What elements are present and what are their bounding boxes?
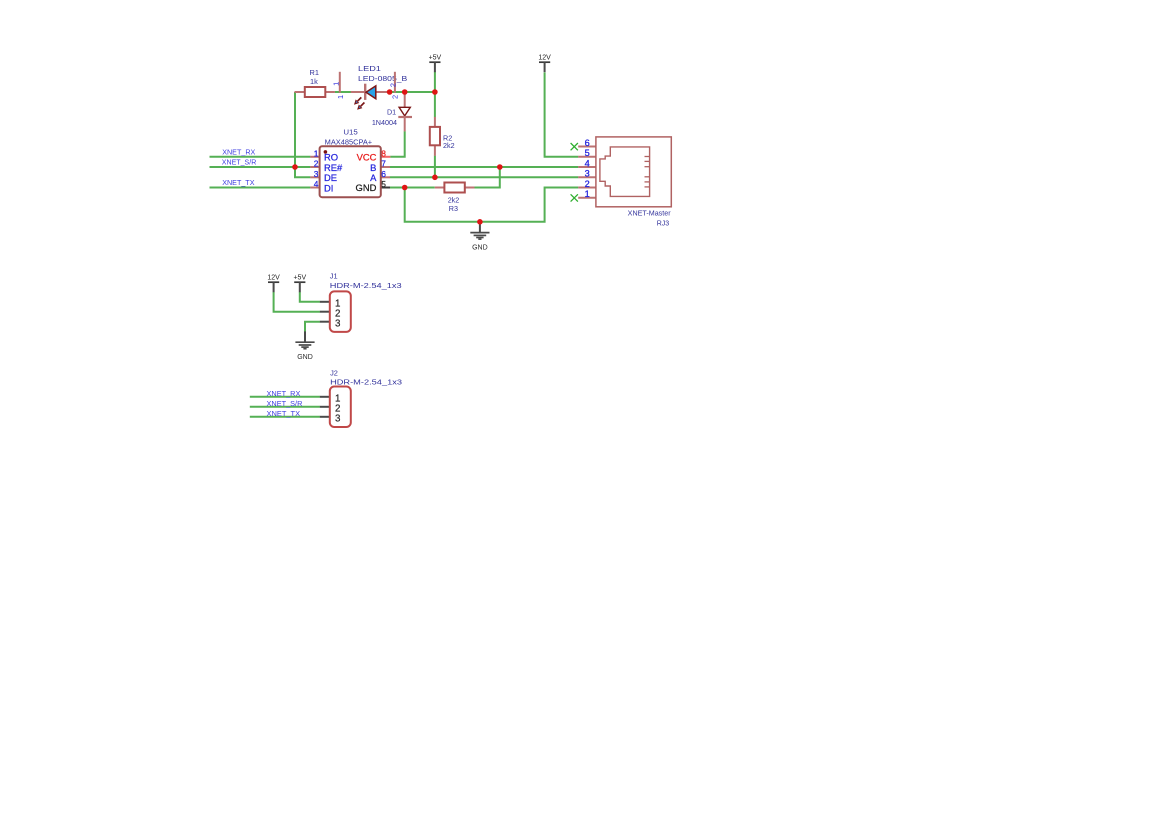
op-amp U15 MAX485CPA+ — [310, 127, 390, 197]
svg-text:2k2: 2k2 — [443, 141, 455, 150]
wire R1 left to RE#/DE — [295, 92, 310, 177]
svg-text:HDR-M-2.54_1x3: HDR-M-2.54_1x3 — [330, 281, 402, 290]
wire R3 right to B line — [474, 167, 499, 188]
svg-text:J1: J1 — [330, 272, 338, 281]
wire R1 to LED1 — [335, 91, 351, 93]
wire XNET_TX to U15 pin4 — [210, 187, 311, 189]
resistor R1 1k — [295, 68, 335, 97]
svg-text:12V: 12V — [538, 54, 551, 61]
svg-text:D1: D1 — [387, 108, 396, 117]
svg-text:U15: U15 — [343, 127, 357, 136]
power +5V top — [429, 54, 442, 72]
RJ45 connector RJ3 XNET-Master — [578, 137, 671, 228]
svg-text:1: 1 — [314, 148, 319, 158]
wire LED1 to +5V node — [390, 91, 435, 93]
wire D1 bottom to VCC pin8 — [390, 131, 405, 157]
wire XNET_RX to U15 pin1 — [210, 156, 311, 158]
ground GND top rail — [470, 222, 489, 252]
svg-text:DI: DI — [324, 182, 333, 193]
svg-text:LED-0805_B: LED-0805_B — [358, 74, 407, 83]
wire XNET_S/R to J2 pin2 — [250, 406, 320, 408]
junction GND rail / symbol — [477, 219, 483, 225]
svg-text:RJ3: RJ3 — [657, 221, 670, 228]
junction +5V node — [432, 89, 438, 95]
svg-text:J2: J2 — [330, 369, 338, 378]
wire B line U15 pin7 to RJ3 pin4 — [390, 166, 579, 168]
junction LED cathode node — [387, 89, 393, 95]
svg-text:3: 3 — [335, 318, 341, 329]
wire 12V to RJ3 pin5 — [545, 72, 579, 156]
svg-text:1: 1 — [336, 95, 345, 99]
wire +5V to R2 top — [434, 72, 436, 118]
svg-text:2: 2 — [388, 83, 397, 87]
svg-text:5: 5 — [381, 179, 386, 189]
svg-text:6: 6 — [585, 138, 590, 148]
svg-text:2: 2 — [314, 159, 319, 169]
svg-text:XNET_RX: XNET_RX — [267, 389, 301, 398]
svg-text:7: 7 — [381, 159, 386, 169]
wire XNET_TX to J2 pin3 — [250, 416, 320, 418]
connector J1 HDR-M-2.54_1x3 — [320, 272, 402, 332]
ground GND J1 — [295, 331, 314, 361]
wire GND line U15 pin5 to R3 — [390, 187, 435, 189]
svg-text:GND: GND — [297, 354, 313, 361]
wire R2 bottom to A line — [434, 156, 436, 178]
power 12V top — [538, 54, 551, 72]
svg-text:GND: GND — [472, 244, 488, 251]
wire 12V to J1 pin2 — [274, 292, 320, 312]
junction D1 anode node — [402, 89, 408, 95]
svg-text:+5V: +5V — [293, 274, 306, 281]
wire A line U15 pin6 to RJ3 pin3 — [390, 176, 579, 178]
svg-text:8: 8 — [381, 148, 386, 158]
junction XNET_S/R / R1 — [292, 164, 298, 170]
svg-text:1N4004: 1N4004 — [372, 118, 397, 127]
wire J1 pin3 to GND — [305, 322, 320, 332]
junction GND line / rail drop — [402, 185, 408, 191]
diode D1 1N4004 — [372, 93, 412, 132]
svg-text:+5V: +5V — [429, 54, 442, 61]
svg-text:XNET_S/R: XNET_S/R — [222, 158, 256, 167]
LED LED1 LED-0805_B — [332, 64, 408, 110]
wire GND rail to RJ3 pin2 — [405, 188, 579, 222]
resistor R2 2k2 — [430, 117, 455, 156]
svg-text:2: 2 — [390, 95, 399, 99]
svg-text:R3: R3 — [449, 204, 458, 213]
no-connect X RJ3 pin6 — [571, 143, 578, 150]
svg-text:XNET_TX: XNET_TX — [267, 409, 301, 418]
svg-text:1k: 1k — [310, 77, 318, 86]
svg-text:3: 3 — [335, 413, 341, 424]
svg-text:XNET_TX: XNET_TX — [222, 178, 254, 187]
wire +5V to J1 pin1 — [300, 292, 320, 302]
svg-text:3: 3 — [585, 169, 590, 179]
connector J2 HDR-M-2.54_1x3 — [320, 369, 402, 427]
wire XNET_S/R to U15 pin2 — [210, 166, 311, 168]
wire XNET_RX to J2 pin1 — [250, 396, 320, 398]
svg-text:6: 6 — [381, 169, 386, 179]
svg-text:2: 2 — [585, 179, 590, 189]
svg-text:3: 3 — [314, 169, 319, 179]
svg-text:XNET_S/R: XNET_S/R — [267, 399, 303, 408]
svg-text:LED1: LED1 — [358, 64, 381, 73]
svg-text:R1: R1 — [310, 68, 319, 77]
svg-text:1: 1 — [332, 82, 341, 86]
svg-text:12V: 12V — [267, 274, 280, 281]
junction A / R2 — [432, 175, 438, 181]
power +5V J1 — [293, 274, 306, 292]
svg-text:MAX485CPA+: MAX485CPA+ — [325, 139, 373, 146]
svg-text:4: 4 — [585, 158, 590, 168]
svg-text:VCC: VCC — [357, 151, 377, 162]
svg-text:5: 5 — [585, 148, 590, 158]
svg-text:HDR-M-2.54_1x3: HDR-M-2.54_1x3 — [330, 377, 402, 386]
svg-text:XNET_RX: XNET_RX — [222, 147, 255, 156]
svg-text:GND: GND — [356, 182, 377, 193]
resistor R3 2k2 — [435, 183, 475, 213]
power 12V J1 — [267, 274, 280, 292]
svg-text:4: 4 — [314, 179, 319, 189]
svg-text:XNET-Master: XNET-Master — [628, 211, 672, 218]
svg-text:1: 1 — [585, 189, 590, 199]
no-connect X RJ3 pin1 — [571, 194, 578, 201]
junction B / R3 — [497, 164, 503, 170]
